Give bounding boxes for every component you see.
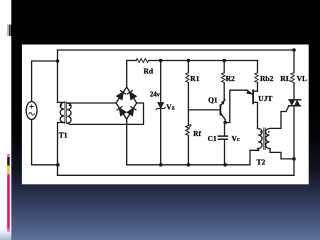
T2 core lines [264,128,265,150]
svg-text:T1: T1 [59,131,68,140]
pencil magenta shaft [7,174,10,232]
svg-text:Q1: Q1 [208,96,218,105]
junction dot bottom-left node [56,163,60,167]
wire: zener branch lower [160,109,162,165]
T1 polarity dot left [61,104,63,106]
transformer T1 primary coil [58,101,65,103]
svg-text:Rf: Rf [193,129,201,138]
pencil decoration: pink tip dot [7,154,10,157]
transistor Q1 (PNP) [220,100,225,120]
wire: T2 secondary bottom to cathode node [270,149,294,159]
capacitor C1 plates [218,136,227,139]
wire: R1 top lead [187,61,189,73]
resistor R1 zigzag [186,73,189,83]
svg-text:UJT: UJT [258,94,272,103]
junction dot C1 bottom [223,163,227,167]
wire: T2 primary bottom to inner rail jog [258,149,260,151]
junction dot R2 top [222,59,226,63]
wire: T1 secondary top to bridge [71,102,117,104]
resistor R2 zigzag [222,73,225,83]
svg-text:24v: 24v [150,91,160,99]
wire: Q1 collector down to node [224,119,226,122]
junction dot Rf bottom [187,163,191,167]
junction dot R1 top [187,59,191,63]
wire: AC top to node A [32,61,58,102]
wire: node A down to T1 primary [57,61,59,102]
wire: R1 bottom to Rf [187,83,189,125]
resistor Rd zigzag [136,59,149,63]
left white strip [0,0,11,240]
AC source V1 [26,102,37,120]
T2 polarity dot left [260,131,262,133]
wire: T1 primary bottom down to bottom node [57,123,59,165]
wire: node A up to top rail [57,50,59,61]
wire: R2 top lead [223,61,225,73]
T1 polarity dot right [69,104,71,106]
white schematic panel [22,45,309,185]
svg-text:VL: VL [297,74,307,83]
UJT emitter arrow [247,90,253,94]
svg-text:Vc: Vc [232,134,240,143]
triac Q2 [289,100,301,106]
small window icon top-left [7,25,11,37]
wire: top rail [58,49,295,51]
junction dot cathode node [292,157,296,161]
wire: bridge bottom to inner rail [126,119,128,165]
bridge diode D4 [127,107,136,116]
zener diode Vz [156,103,165,110]
svg-text:RL: RL [280,74,290,83]
transformer T2 secondary coil [266,128,271,148]
bridge diode D3 [117,107,126,116]
bridge diode D1 [117,91,126,100]
wire: R2 bottom to Q1 emitter [223,83,226,100]
wire: DC rail left segment [127,60,136,62]
wire: Q1 base wire [188,109,219,111]
transformer T1 secondary coil [67,103,71,123]
wire: T2 secondary top to gate path [270,112,286,129]
T2 polarity dot right [268,131,270,133]
junction dot top rail right corner [292,48,296,52]
wire: UJT base2 up to Rb2 [254,83,258,91]
wire: RL bottom to triac [293,83,295,100]
T1 core lines [65,102,66,124]
transformer T2 primary coil [258,128,263,148]
svg-text:R1: R1 [190,74,199,83]
svg-text:Rd: Rd [144,67,154,76]
wire: triac cathode down to bottom rail [293,106,295,175]
Rf arrow [189,125,191,129]
bridge rectifier diamond [116,87,137,119]
wire: bridge top to DC rail [126,61,128,88]
resistor Rf (variable) zigzag [186,126,189,136]
wire: C1 top lead [224,123,226,136]
wire: outer bottom rail [58,174,295,176]
wire: C1 bottom lead [224,140,226,165]
bridge diode D2 [127,91,136,100]
junction dot zener bottom [159,163,163,167]
wire: Rf bottom lead [187,136,189,165]
wire: UJT base1 down to T2 [254,102,258,128]
wire: T1 secondary bottom to bridge right via jog [71,103,144,124]
wire: Rb2 top to DC rail corner [257,61,259,73]
wire: AC bottom to bottom node [32,120,58,165]
wire: inner ground rail [127,150,259,165]
wire: collector node to UJT emitter [225,90,247,122]
wire: zener branch upper [160,61,162,103]
svg-text:T2: T2 [257,157,266,166]
svg-text:Vz: Vz [166,103,174,112]
pencil yellow band [7,166,10,175]
svg-text:Rb2: Rb2 [260,74,274,83]
junction dot zener top [159,59,163,63]
svg-text:C1: C1 [208,134,217,143]
wire: down to outer bottom rail [57,165,59,176]
svg-text:R2: R2 [226,74,235,83]
UJT U1 bar [252,90,254,103]
wire: RL top lead [293,50,295,73]
junction dot node A [56,59,60,63]
pencil dark band [7,157,10,166]
wire: DC rail right segment [149,60,258,62]
wire: gate slant into triac [286,107,289,112]
resistor Rb2 zigzag [255,73,258,83]
resistor RL zigzag [291,73,294,83]
junction dot Q1 collector node [223,121,227,125]
